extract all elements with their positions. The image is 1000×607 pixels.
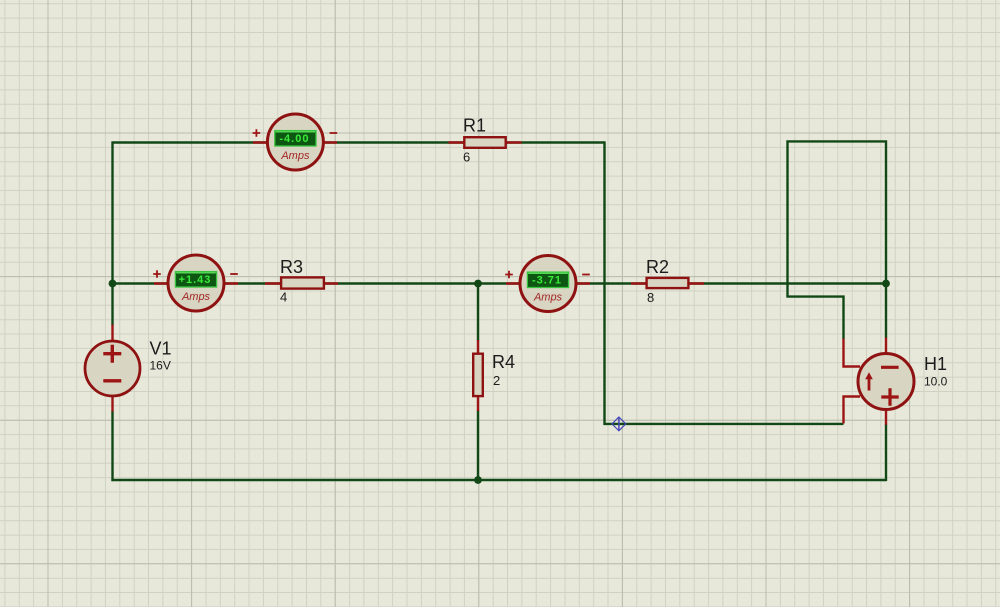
svg-text:-3.71: -3.71 [532,274,562,286]
svg-text:R2: R2 [646,257,669,277]
junction node at R4 bottom [474,476,482,484]
svg-text:R4: R4 [492,352,515,372]
svg-text:+1.43: +1.43 [179,274,212,286]
svg-text:6: 6 [463,150,470,165]
resistor R1 body [464,137,505,148]
ammeter - terminal mark [330,132,338,134]
svg-text:2: 2 [493,373,500,388]
wire R4 vertical [477,284,479,481]
wire R1-right vertical down and across to H1 lower-left [605,141,844,424]
ammeter + terminal mark [153,270,161,278]
V1 pin stubs [111,325,113,412]
wire bottom horizontal net [111,479,886,481]
ammeter circle at (196,283) [168,255,224,311]
svg-text:Amps: Amps [533,291,563,303]
resistor R3 body [281,277,324,288]
svg-text:16V: 16V [150,359,171,373]
resistor R4 body (vertical) [473,354,483,396]
ammeter circle at (295.4,142) [267,114,323,170]
svg-text:Amps: Amps [280,150,310,162]
ammeter LCD display -3.71 [527,272,568,287]
ammeter + terminal mark [505,271,513,279]
H1 minus symbol [881,366,899,369]
svg-text:4: 4 [280,290,287,305]
wire top-right loop [788,141,887,338]
junction node at R4 top [474,280,482,288]
meter AM3 pin stubs [506,282,590,284]
H1 upper-left control pin [844,339,861,367]
resistor R1 pin leads [449,141,522,143]
ammeter - terminal mark [230,273,238,275]
wire step to H1 upper-left [786,297,843,339]
meter AM1 pin stubs [253,141,337,143]
junction node at H1 top net [882,280,890,288]
junction node at left mid [109,280,117,288]
R4 pin leads [477,340,479,411]
V1 minus symbol [103,379,121,382]
ammeter + terminal mark [253,129,261,137]
svg-text:R1: R1 [463,116,486,136]
svg-text:H1: H1 [924,354,947,374]
node marker blue diamond [612,417,626,431]
svg-text:-4.00: -4.00 [279,133,309,145]
voltage source V1 circle [85,341,140,396]
ammeter LCD display -4.00 [275,131,316,146]
wire middle horizontal net [113,282,887,284]
H1 plus symbol [881,388,898,405]
H1 top and bottom pin stubs [885,338,887,425]
H1 current arrow [868,377,871,391]
wire top horizontal net [113,141,605,143]
resistor R2 body [647,278,689,288]
svg-text:Amps: Amps [181,291,211,303]
ammeter - terminal mark [582,274,590,276]
wire left vertical (V1 branch) [111,141,113,481]
CCVS H1 circle [858,354,914,410]
ammeter circle at (548,283.5) [520,256,576,312]
H1 lower-left control pin [844,397,861,424]
svg-text:8: 8 [647,290,654,305]
V1 plus symbol [103,345,121,363]
svg-text:V1: V1 [150,339,172,359]
meter AM2 pin stubs [154,282,238,284]
svg-text:R3: R3 [280,257,303,277]
resistor R2 pin leads [631,282,704,284]
ammeter LCD display +1.43 [175,272,216,287]
wire H1 bottom to ground rail [885,424,887,481]
svg-text:10.0: 10.0 [924,375,948,389]
resistor R3 pin leads [265,282,338,284]
